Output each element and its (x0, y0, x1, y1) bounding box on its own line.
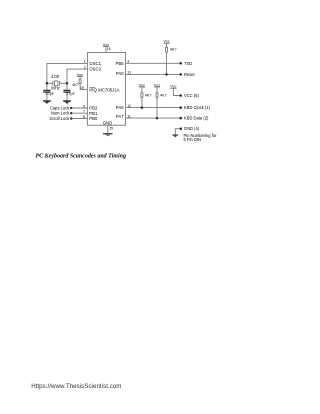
svg-text:KBD Data (2): KBD Data (2) (184, 116, 209, 121)
svg-text:PA6: PA6 (116, 105, 124, 110)
svg-text:15: 15 (109, 127, 113, 131)
svg-text:PB1: PB1 (89, 111, 98, 116)
svg-text:Num Lock: Num Lock (51, 111, 70, 116)
svg-text:Reset: Reset (184, 72, 196, 77)
svg-text:7: 7 (83, 110, 85, 114)
svg-text:OSC2: OSC2 (89, 67, 101, 72)
svg-text:PB5: PB5 (115, 61, 124, 66)
svg-text:27pF: 27pF (66, 92, 75, 96)
svg-text:16: 16 (107, 47, 111, 51)
svg-text:4K7: 4K7 (160, 94, 167, 98)
svg-text:19: 19 (80, 86, 84, 90)
svg-text:TXD: TXD (184, 61, 192, 66)
svg-text:Vcc: Vcc (163, 40, 169, 44)
svg-text:4.00: 4.00 (51, 74, 60, 79)
svg-text:11: 11 (127, 114, 131, 118)
svg-text:GND: GND (103, 120, 113, 125)
svg-text:Scroll Lock: Scroll Lock (49, 116, 70, 121)
svg-text:OSC1: OSC1 (89, 61, 101, 66)
svg-text:5 Pin DIN: 5 Pin DIN (184, 137, 202, 142)
svg-text:13: 13 (127, 71, 131, 75)
svg-text:6: 6 (83, 104, 85, 108)
svg-text:Vcc: Vcc (139, 83, 145, 87)
svg-text:PC Keyboard Scancodes and Timi: PC Keyboard Scancodes and Timing (36, 153, 126, 159)
svg-text:VCC (5): VCC (5) (184, 93, 199, 98)
svg-text:KBD Clock (1): KBD Clock (1) (184, 105, 211, 110)
svg-text:4K7: 4K7 (72, 83, 79, 87)
svg-text:1: 1 (84, 60, 86, 64)
svg-text:PB0: PB0 (89, 116, 98, 121)
svg-text:4K7: 4K7 (145, 94, 152, 98)
svg-text:PA7: PA7 (116, 114, 124, 119)
svg-text:2: 2 (84, 65, 86, 69)
svg-text:MC705J1A: MC705J1A (98, 87, 119, 92)
svg-text:Https://www.ThesisScientist.co: Https://www.ThesisScientist.com (31, 383, 121, 390)
svg-text:GND (4): GND (4) (184, 126, 200, 131)
svg-text:3: 3 (127, 60, 129, 64)
svg-text:MHz: MHz (51, 86, 59, 91)
svg-text:8: 8 (83, 115, 85, 119)
svg-text:4K7: 4K7 (170, 48, 177, 52)
svg-text:PA0: PA0 (116, 71, 124, 76)
svg-text:IRQ: IRQ (89, 87, 97, 92)
svg-text:27pF: 27pF (46, 92, 55, 96)
svg-text:Vcc: Vcc (154, 83, 160, 87)
svg-text:12: 12 (127, 104, 131, 108)
svg-text:Vcc: Vcc (170, 85, 176, 89)
svg-text:Vcc: Vcc (77, 73, 83, 77)
